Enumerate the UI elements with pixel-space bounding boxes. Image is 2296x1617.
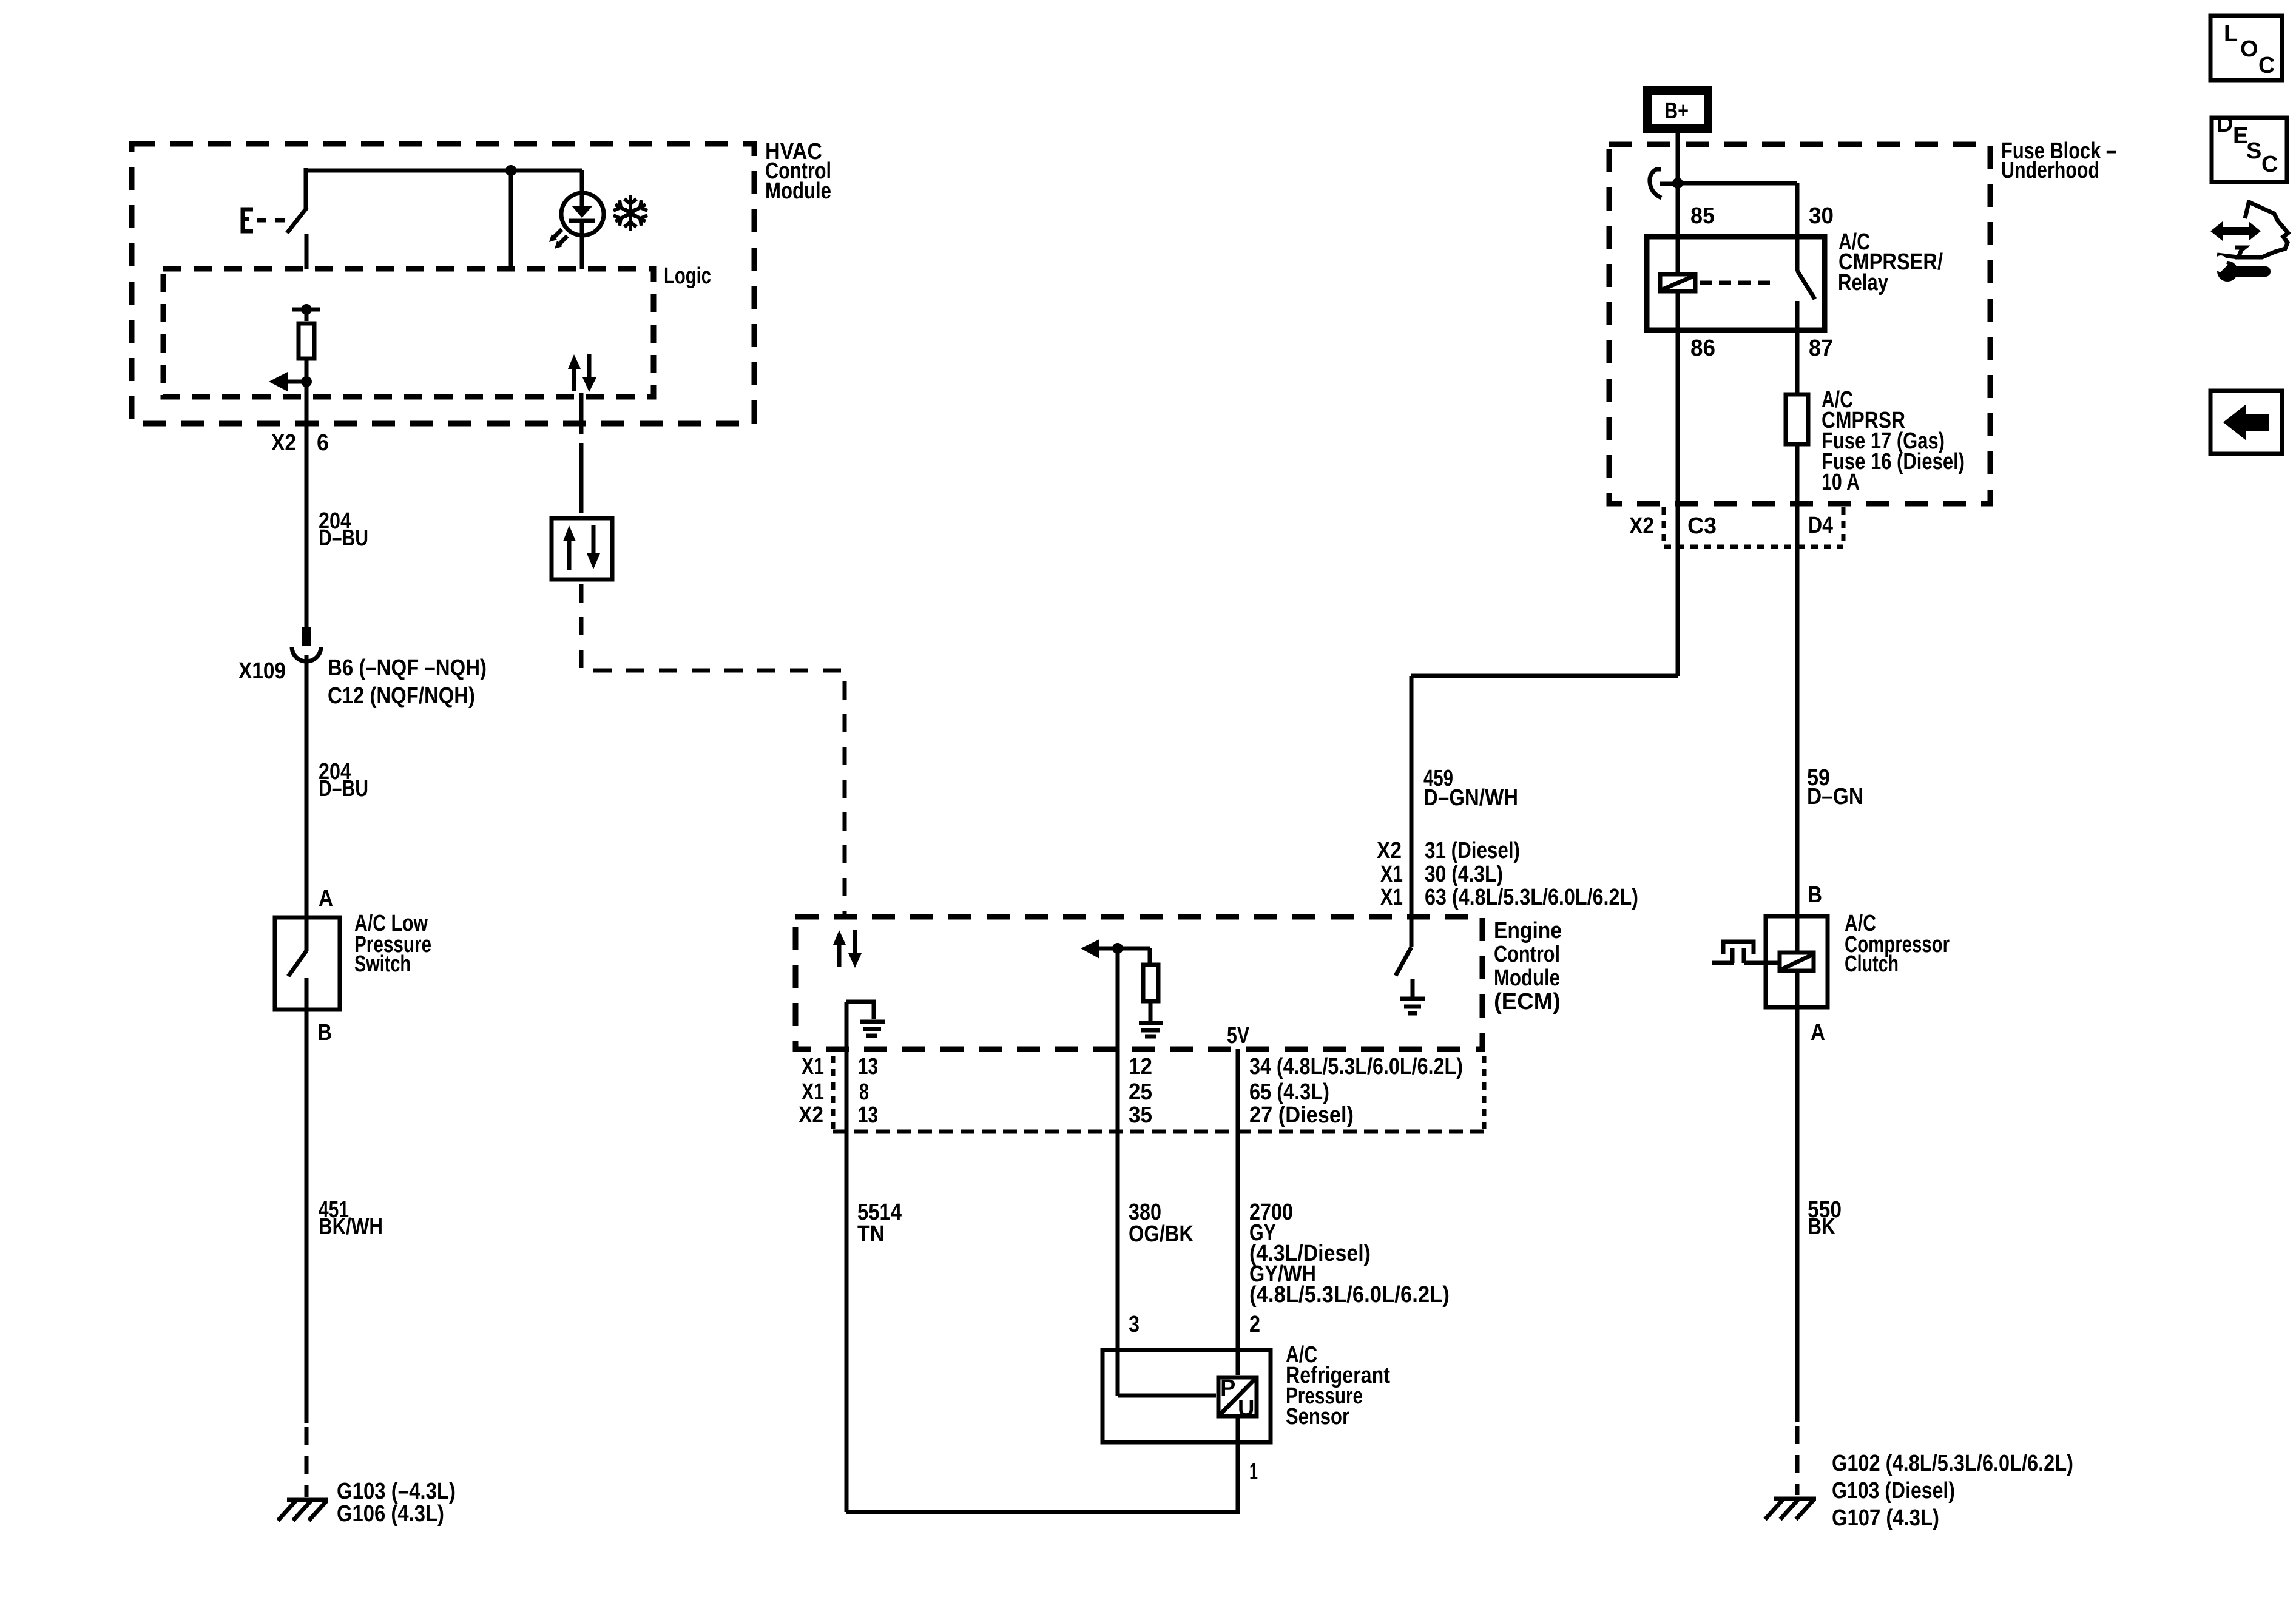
wire 59 D-GN label (1807, 765, 1863, 809)
wire: switch to LED top rail (306, 165, 582, 269)
dashed wire to ground G103/G106 (305, 1427, 309, 1497)
svg-text:30 (4.3L): 30 (4.3L) (1425, 862, 1503, 887)
svg-text:X1: X1 (1380, 885, 1403, 910)
serial data link box (552, 518, 612, 579)
svg-text:B6 (–NQF –NQH): B6 (–NQF –NQH) (328, 655, 487, 681)
svg-text:34 (4.8L/5.3L/6.0L/6.2L): 34 (4.8L/5.3L/6.0L/6.2L) (1249, 1054, 1463, 1079)
svg-text:86: 86 (1690, 336, 1715, 361)
svg-text:A: A (319, 886, 333, 911)
svg-text:8: 8 (859, 1079, 869, 1105)
Engine Control Module box (795, 917, 1562, 1049)
icon back arrow box (2210, 391, 2282, 454)
inline connector X109 (238, 627, 487, 917)
svg-text:13: 13 (858, 1102, 878, 1128)
icon DESC box (2212, 112, 2287, 182)
svg-text:G106 (4.3L): G106 (4.3L) (337, 1501, 444, 1527)
svg-text:D–BU: D–BU (319, 776, 368, 802)
svg-text:13: 13 (858, 1054, 878, 1079)
svg-text:D–GN/WH: D–GN/WH (1423, 785, 1518, 811)
svg-text:A: A (1811, 1020, 1825, 1045)
svg-text:L: L (2224, 21, 2238, 47)
svg-text:Clutch: Clutch (1845, 951, 1899, 977)
wire 451 BK/WH (306, 1010, 383, 1423)
svg-text:B+: B+ (1664, 98, 1689, 124)
svg-text:2: 2 (1249, 1312, 1260, 1337)
ground G102/G103/G107 (1765, 1451, 2073, 1531)
svg-text:30: 30 (1809, 203, 1834, 229)
ground G103/G106 (278, 1479, 456, 1527)
svg-text:C3: C3 (1687, 513, 1717, 539)
wire 5514 TN (846, 1002, 902, 1512)
wire: logic to pin X2-6 (305, 382, 309, 627)
svg-text:Logic: Logic (664, 263, 711, 289)
wire label 204 D-BU (lower) (319, 759, 368, 802)
svg-text:C: C (2258, 53, 2275, 78)
svg-text:C: C (2261, 152, 2278, 177)
svg-text:Module: Module (1494, 965, 1560, 991)
ECM serial arrows (833, 930, 862, 968)
svg-text:X2: X2 (1629, 513, 1654, 539)
logic output arrow (269, 372, 312, 391)
svg-text:G103 (–4.3L): G103 (–4.3L) (337, 1479, 456, 1504)
B+ terminal (1647, 90, 1708, 234)
snowflake icon (613, 195, 647, 231)
svg-text:S: S (2246, 138, 2261, 164)
svg-text:63 (4.8L/5.3L/6.0L/6.2L): 63 (4.8L/5.3L/6.0L/6.2L) (1425, 885, 1638, 910)
ECM A/C relay control switch to ground (1396, 676, 1425, 1013)
svg-text:Relay: Relay (1838, 270, 1888, 295)
svg-text:P: P (1220, 1376, 1235, 1401)
wire label 204 D-BU (319, 508, 368, 551)
svg-text:3: 3 (1129, 1312, 1140, 1337)
svg-text:X2: X2 (1377, 838, 1402, 863)
LED indicator (549, 170, 604, 269)
svg-text:G107 (4.3L): G107 (4.3L) (1832, 1505, 1939, 1531)
svg-text:X109: X109 (238, 658, 286, 684)
svg-text:U: U (1238, 1396, 1254, 1421)
svg-text:Sensor: Sensor (1286, 1404, 1349, 1430)
A/C Refrigerant Pressure Sensor (1102, 1342, 1390, 1514)
wire 550 BK (1797, 1007, 1842, 1422)
serial data symbol (logic) (568, 354, 596, 392)
svg-text:D4: D4 (1808, 513, 1833, 538)
wire 380 OG/BK (1118, 948, 1194, 1396)
svg-text:X2: X2 (799, 1102, 823, 1128)
wire 2700 GY (5V) (1238, 1049, 1450, 1375)
svg-text:25: 25 (1129, 1079, 1152, 1105)
svg-text:Module: Module (765, 178, 831, 204)
A/C CMPRSR fuse (1786, 333, 1965, 914)
svg-text:31 (Diesel): 31 (Diesel) (1425, 838, 1520, 863)
svg-text:Underhood: Underhood (2001, 158, 2099, 183)
svg-text:TN: TN (857, 1221, 885, 1247)
svg-text:OG/BK: OG/BK (1129, 1221, 1194, 1247)
icon LOC box (2210, 16, 2282, 80)
bottom wire: sensor pin 1 to 5514 (846, 1510, 1238, 1514)
ECM connector row (799, 1054, 1484, 1132)
sensor pin labels 3 and 2 (1129, 1312, 1260, 1337)
svg-text:D–BU: D–BU (319, 525, 368, 551)
HVAC Control Module box (132, 139, 831, 424)
svg-text:X1: X1 (802, 1054, 824, 1079)
hook (terminal) symbol (1650, 169, 1675, 198)
A/C Compressor Clutch (1712, 911, 1950, 1010)
ECM internal ground (pins 13/8/13) (846, 1002, 885, 1036)
svg-text:D: D (2217, 112, 2233, 137)
svg-text:87: 87 (1809, 336, 1833, 361)
svg-text:1: 1 (1249, 1459, 1258, 1485)
junction and feed to pin 30 (1672, 178, 1797, 234)
pin label X2 6 (271, 430, 329, 456)
svg-text:6: 6 (317, 430, 329, 456)
svg-text:G103 (Diesel): G103 (Diesel) (1832, 1478, 1955, 1504)
A/C switch (HVAC) (243, 208, 307, 269)
svg-text:O: O (2240, 36, 2258, 62)
A/C Low Pressure Switch (275, 911, 431, 1012)
dashed wire to ground G102 (1795, 1426, 1800, 1495)
svg-text:12: 12 (1129, 1054, 1152, 1079)
ECM pull-up resistor and output arrow (1081, 939, 1163, 1036)
svg-text:35: 35 (1129, 1102, 1152, 1128)
logic pull-up resistor (292, 304, 320, 382)
svg-text:X2: X2 (271, 430, 296, 456)
fuse block connector row X2 C3 D4 (1629, 507, 1843, 547)
svg-text:5V: 5V (1227, 1023, 1250, 1048)
wire 459 D-GN/WH (86 to ECM) (1377, 333, 1678, 910)
svg-text:Engine: Engine (1494, 918, 1562, 944)
svg-text:27 (Diesel): 27 (Diesel) (1249, 1102, 1354, 1128)
svg-text:65 (4.3L): 65 (4.3L) (1249, 1079, 1329, 1105)
svg-text:X1: X1 (802, 1079, 824, 1105)
svg-text:Control: Control (1494, 942, 1560, 967)
svg-text:D–GN: D–GN (1807, 784, 1863, 809)
svg-text:X1: X1 (1380, 862, 1403, 887)
svg-text:C12 (NQF/NQH): C12 (NQF/NQH) (328, 683, 475, 709)
serial data wire (solid then dashed) (581, 393, 845, 917)
svg-text:B: B (1808, 882, 1822, 908)
Fuse Block - Underhood box (1609, 138, 2116, 504)
A/C CMPRSER Relay (1647, 203, 1943, 361)
Logic box (163, 263, 711, 397)
svg-text:B: B (317, 1020, 332, 1045)
svg-text:85: 85 (1690, 203, 1715, 229)
svg-text:BK: BK (1808, 1214, 1835, 1240)
svg-text:Switch: Switch (354, 951, 411, 977)
svg-text:BK/WH: BK/WH (319, 1214, 383, 1240)
svg-text:G102 (4.8L/5.3L/6.0L/6.2L): G102 (4.8L/5.3L/6.0L/6.2L) (1832, 1451, 2073, 1476)
svg-text:(ECM): (ECM) (1494, 989, 1561, 1014)
svg-text:10 A: 10 A (1822, 470, 1860, 495)
icon vehicle with arrow and wrench (2209, 200, 2288, 282)
svg-text:(4.8L/5.3L/6.0L/6.2L): (4.8L/5.3L/6.0L/6.2L) (1249, 1282, 1450, 1308)
